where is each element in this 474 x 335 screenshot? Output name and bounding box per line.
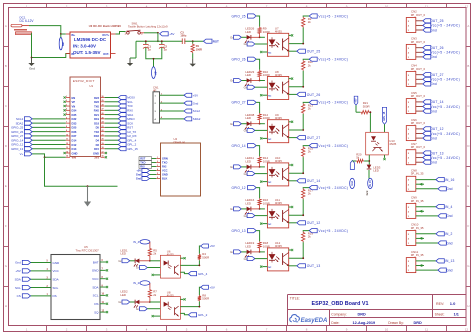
svg-text:SQ: SQ: [94, 310, 99, 314]
svg-text:GND: GND: [93, 151, 99, 155]
svg-text:F: F: [468, 224, 470, 228]
svg-text:BAT: BAT: [93, 260, 99, 264]
svg-text:RX2: RX2: [94, 134, 100, 138]
svg-text:D32: D32: [72, 117, 77, 121]
svg-text:C: C: [467, 104, 469, 108]
svg-text:OUT_26: OUT_26: [307, 93, 321, 97]
svg-text:NC: NC: [268, 224, 272, 226]
svg-text:1u: 1u: [164, 47, 167, 51]
svg-text:DRD: DRD: [358, 312, 366, 316]
svg-text:D34: D34: [72, 109, 77, 113]
svg-text:4N35: 4N35: [275, 116, 282, 120]
svg-text:GPIO_14: GPIO_14: [232, 144, 246, 148]
svg-text:H: H: [467, 304, 469, 308]
svg-text:BLK: BLK: [162, 177, 167, 181]
svg-text:Vcc(+5 - 24VDC): Vcc(+5 - 24VDC): [430, 78, 460, 82]
svg-text:4N35: 4N35: [275, 244, 282, 248]
svg-text:10: 10: [385, 4, 389, 8]
svg-text:OUT_27: OUT_27: [430, 73, 443, 77]
svg-text:Vcc(+5 - 24VDC): Vcc(+5 - 24VDC): [318, 229, 348, 233]
svg-text:Drawn By:: Drawn By:: [388, 321, 404, 325]
svg-text:30: 30: [102, 96, 104, 98]
svg-text:4N35: 4N35: [275, 30, 282, 34]
svg-text:GND: GND: [53, 261, 61, 265]
svg-text:Gnd: Gnd: [193, 101, 199, 105]
svg-text:Vcc(+5 - 24VDC): Vcc(+5 - 24VDC): [430, 156, 460, 160]
svg-text:U2 DC-DC Buck LM2596: U2 DC-DC Buck LM2596: [89, 24, 122, 28]
svg-text:D15: D15: [94, 147, 99, 151]
svg-text:Gnd: Gnd: [430, 161, 437, 165]
svg-text:SCL2: SCL2: [193, 109, 201, 113]
svg-text:VIN: VIN: [72, 156, 77, 160]
svg-text:NC: NC: [268, 267, 272, 269]
svg-text:LED: LED: [245, 244, 251, 248]
svg-text:IN_15: IN_15: [370, 180, 372, 187]
svg-text:Gnd: Gnd: [446, 214, 452, 218]
svg-text:OUT-: OUT-: [103, 52, 109, 56]
svg-text:IN_4: IN_4: [445, 205, 453, 209]
svg-text:REV:: REV:: [436, 302, 444, 306]
svg-text:OUT_13: OUT_13: [307, 264, 321, 268]
svg-text:GPIO_27: GPIO_27: [232, 101, 246, 105]
svg-text:GPL_15: GPL_15: [383, 111, 386, 121]
svg-text:Gnd: Gnd: [430, 109, 437, 113]
svg-text:12: 12: [66, 143, 68, 145]
svg-text:20: 20: [102, 139, 104, 141]
svg-text:D21: D21: [94, 113, 99, 117]
svg-text:Gnd: Gnd: [430, 82, 437, 86]
svg-text:DRD: DRD: [414, 321, 422, 325]
svg-text:OUT_25: OUT_25: [307, 50, 321, 54]
svg-text:+5V: +5V: [15, 269, 20, 273]
svg-text:SCL: SCL: [15, 286, 21, 290]
svg-text:GPL_15: GPL_15: [127, 147, 138, 151]
svg-text:GND: GND: [92, 269, 100, 273]
svg-text:Gnd: Gnd: [15, 261, 21, 265]
svg-text:D5: D5: [96, 126, 100, 130]
svg-text:16: 16: [102, 156, 104, 158]
svg-text:TXO: TXO: [162, 161, 167, 165]
svg-text:25: 25: [102, 117, 104, 119]
svg-text:Vcc(+5 - 24VDC): Vcc(+5 - 24VDC): [430, 51, 460, 55]
svg-text:RST: RST: [213, 39, 219, 43]
svg-text:D19: D19: [94, 117, 99, 121]
svg-text:IN_4: IN_4: [133, 240, 139, 244]
svg-text:D25: D25: [72, 126, 77, 130]
svg-text:6: 6: [157, 177, 158, 179]
svg-text:4N35: 4N35: [275, 73, 282, 77]
svg-text:Vcc(+5 - 24VDC): Vcc(+5 - 24VDC): [318, 101, 348, 105]
svg-text:LED: LED: [373, 169, 379, 173]
svg-text:Gnd: Gnd: [136, 173, 142, 177]
svg-text:GPIO_13: GPIO_13: [11, 147, 23, 151]
svg-text:B: B: [467, 64, 469, 68]
svg-text:3P_OUT_0: 3P_OUT_0: [411, 40, 426, 44]
svg-text:3V3: 3V3: [94, 156, 99, 160]
svg-text:D12: D12: [72, 143, 77, 147]
svg-text:D: D: [5, 144, 7, 148]
svg-text:Tactile Button Latching 12x12x: Tactile Button Latching 12x12x9: [128, 25, 168, 29]
svg-text:29: 29: [102, 100, 104, 102]
svg-text:Vcc(+5 - 24VDC): Vcc(+5 - 24VDC): [318, 144, 348, 148]
svg-text:Date:: Date:: [331, 321, 339, 325]
svg-text:3P_OUT_0: 3P_OUT_0: [411, 67, 426, 71]
svg-text:3P_IN_35: 3P_IN_35: [411, 172, 424, 176]
svg-text:Gnd: Gnd: [366, 190, 369, 195]
svg-text:2: 2: [157, 161, 158, 163]
svg-text:A: A: [467, 24, 469, 28]
svg-text:GND: GND: [162, 173, 168, 177]
svg-text:GND: GND: [72, 151, 78, 155]
svg-text:1u: 1u: [148, 47, 151, 51]
svg-text:OUT: 1.5-35V: OUT: 1.5-35V: [73, 50, 101, 55]
svg-text:A: A: [5, 24, 7, 28]
svg-text:23: 23: [102, 126, 104, 128]
svg-text:5: 5: [66, 113, 67, 115]
svg-text:+5V: +5V: [210, 285, 215, 289]
svg-text:LED: LED: [245, 73, 251, 77]
svg-text:Gnd: Gnd: [446, 187, 452, 191]
svg-text:DS: DS: [53, 294, 57, 298]
svg-text:Vcc(+5 - 24VDC): Vcc(+5 - 24VDC): [318, 14, 348, 18]
svg-text:19: 19: [102, 143, 104, 145]
svg-text:GPIO_26: GPIO_26: [232, 58, 246, 62]
svg-text:22: 22: [102, 130, 104, 132]
svg-text:3P_OUT_0: 3P_OUT_0: [411, 13, 426, 17]
svg-text:RX0: RX0: [94, 109, 100, 113]
svg-text:3P_OUT_0: 3P_OUT_0: [411, 121, 426, 125]
svg-text:EasyEDA: EasyEDA: [301, 318, 328, 324]
svg-text:13: 13: [66, 147, 68, 149]
svg-text:EN: EN: [72, 96, 76, 100]
svg-text:H: H: [5, 304, 7, 308]
svg-text:OUT_25: OUT_25: [430, 19, 443, 23]
svg-text:28: 28: [102, 104, 104, 106]
svg-text:OUT_12: OUT_12: [430, 127, 443, 131]
svg-text:2: 2: [66, 100, 67, 102]
svg-text:6: 6: [66, 117, 67, 119]
svg-text:7: 7: [66, 122, 67, 124]
svg-text:D35: D35: [72, 113, 77, 117]
svg-text:NC: NC: [268, 52, 272, 54]
svg-text:LED: LED: [245, 201, 251, 205]
svg-text:SDA: SDA: [92, 285, 98, 289]
svg-text:1.0: 1.0: [450, 301, 456, 306]
svg-text:Gnd: Gnd: [352, 181, 354, 186]
svg-text:D4: D4: [96, 139, 100, 143]
svg-text:GPIO_12: GPIO_12: [232, 186, 246, 190]
svg-text:GPL_4: GPL_4: [198, 272, 208, 276]
svg-text:GRN: GRN: [162, 157, 168, 161]
svg-text:3P_IN_35: 3P_IN_35: [411, 199, 424, 203]
svg-text:E: E: [5, 184, 7, 188]
svg-text:VCC: VCC: [53, 269, 60, 273]
svg-text:TX2: TX2: [94, 130, 99, 134]
svg-text:+5V: +5V: [210, 244, 215, 248]
svg-text:SDA2: SDA2: [193, 117, 201, 121]
svg-text:D2: D2: [96, 143, 100, 147]
svg-text:D23: D23: [94, 96, 99, 100]
svg-text:Gnd: Gnd: [430, 28, 437, 32]
svg-text:+5V: +5V: [136, 169, 141, 173]
svg-text:GPIO_13: GPIO_13: [232, 229, 246, 233]
svg-text:Vcc(+5 - 24VDC): Vcc(+5 - 24VDC): [430, 132, 460, 136]
svg-text:IN_2: IN_2: [445, 232, 453, 236]
svg-text:+5V: +5V: [153, 70, 156, 75]
svg-text:VP: VP: [72, 100, 76, 104]
svg-text:3P_IN_35: 3P_IN_35: [411, 253, 424, 257]
svg-text:C: C: [5, 104, 7, 108]
svg-text:5: 5: [157, 173, 158, 175]
svg-text:D: D: [467, 144, 469, 148]
svg-text:SCL: SCL: [93, 294, 99, 298]
svg-text:NC: NC: [268, 96, 272, 98]
svg-text:F: F: [5, 224, 7, 228]
svg-text:OUT_26: OUT_26: [430, 46, 443, 50]
svg-text:18: 18: [102, 147, 104, 149]
svg-text:3P_OUT_0: 3P_OUT_0: [411, 94, 426, 98]
svg-text:Company:: Company:: [331, 312, 347, 316]
svg-text:LED: LED: [245, 116, 251, 120]
svg-text:OUT_12: OUT_12: [307, 221, 321, 225]
svg-text:IN: 3.0-40V: IN: 3.0-40V: [73, 44, 96, 49]
svg-text:OUT_14: OUT_14: [430, 100, 443, 104]
svg-text:Vcc(+5 - 24VDC): Vcc(+5 - 24VDC): [318, 58, 348, 62]
svg-text:D14: D14: [72, 139, 77, 143]
svg-text:4N35: 4N35: [167, 252, 174, 256]
svg-text:LED: LED: [120, 293, 126, 297]
svg-text:V+: V+: [20, 152, 24, 156]
svg-text:3: 3: [66, 104, 67, 106]
svg-text:Gnd: Gnd: [446, 241, 452, 245]
svg-text:ESP32_DOIT: ESP32_DOIT: [73, 79, 95, 83]
svg-text:+5V: +5V: [169, 32, 174, 36]
svg-text:DC 6-12V: DC 6-12V: [20, 19, 35, 23]
svg-text:LED: LED: [245, 30, 251, 34]
svg-text:B: B: [5, 64, 7, 68]
svg-text:Gnd: Gnd: [29, 66, 35, 70]
svg-text:27: 27: [102, 109, 104, 111]
svg-text:4N35: 4N35: [275, 201, 282, 205]
svg-text:OUT_13: OUT_13: [430, 151, 443, 155]
svg-text:IN_13: IN_13: [445, 259, 455, 263]
svg-text:15: 15: [66, 156, 68, 158]
svg-text:Vcc(+5 - 24VDC): Vcc(+5 - 24VDC): [430, 24, 460, 28]
svg-text:11: 11: [66, 139, 68, 141]
svg-text:9: 9: [66, 130, 67, 132]
svg-text:D33: D33: [72, 121, 77, 125]
svg-text:IN_2: IN_2: [133, 281, 139, 285]
svg-text:OUT_27: OUT_27: [307, 136, 321, 140]
svg-text:1/1: 1/1: [454, 312, 459, 316]
svg-text:1: 1: [66, 96, 67, 98]
svg-text:10: 10: [66, 134, 68, 136]
svg-text:Gnd: Gnd: [136, 177, 142, 181]
svg-text:RXI: RXI: [140, 165, 145, 169]
svg-text:100R: 100R: [196, 47, 202, 51]
svg-text:TITLE:: TITLE:: [290, 297, 300, 301]
svg-text:CS: CS: [17, 294, 21, 298]
svg-text:D18: D18: [94, 121, 99, 125]
svg-text:4N35: 4N35: [389, 142, 396, 146]
svg-text:Tiny RTC DS1307: Tiny RTC DS1307: [76, 249, 100, 253]
svg-text:OpenLog: OpenLog: [174, 140, 186, 144]
svg-text:OUT+: OUT+: [102, 33, 109, 37]
svg-text:RST: RST: [140, 157, 146, 161]
svg-text:12-Aug-2019: 12-Aug-2019: [353, 321, 376, 325]
svg-text:21: 21: [102, 134, 104, 136]
svg-text:3P_OUT_0: 3P_OUT_0: [411, 145, 426, 149]
svg-text:500R: 500R: [202, 255, 209, 259]
svg-text:SDA: SDA: [15, 277, 21, 281]
svg-text:LED: LED: [245, 159, 251, 163]
svg-text:17: 17: [102, 151, 104, 153]
svg-text:Gnd: Gnd: [430, 55, 437, 59]
svg-text:11: 11: [425, 328, 428, 332]
svg-text:DS: DS: [94, 302, 98, 306]
svg-text:12: 12: [465, 328, 469, 332]
svg-text:LED: LED: [120, 252, 126, 256]
svg-text:10: 10: [385, 328, 389, 332]
svg-text:3P_IN_35: 3P_IN_35: [411, 226, 424, 230]
svg-text:12: 12: [465, 4, 469, 8]
svg-text:ESP32_OBD Board V1: ESP32_OBD Board V1: [312, 301, 369, 307]
svg-text:4N35: 4N35: [167, 294, 174, 298]
svg-text:D13: D13: [72, 147, 77, 151]
svg-text:500R: 500R: [363, 104, 370, 108]
svg-text:Sheet:: Sheet:: [435, 312, 445, 316]
svg-text:IN-: IN-: [71, 52, 75, 56]
svg-text:D26: D26: [72, 130, 77, 134]
svg-text:RXI: RXI: [162, 165, 167, 169]
svg-text:+5V: +5V: [193, 93, 198, 97]
svg-text:LM2596 DC-DC: LM2596 DC-DC: [74, 37, 107, 42]
svg-text:NC: NC: [268, 139, 272, 141]
svg-text:Gnd: Gnd: [446, 268, 452, 272]
svg-text:VN: VN: [72, 104, 76, 108]
svg-text:TXO: TXO: [140, 161, 145, 165]
svg-text:OUT_14: OUT_14: [307, 179, 321, 183]
svg-text:GPIO_25: GPIO_25: [232, 14, 246, 18]
svg-text:11: 11: [425, 4, 428, 8]
svg-text:VIN: VIN: [61, 42, 65, 46]
svg-text:IN+: IN+: [71, 33, 76, 37]
svg-text:TX0: TX0: [94, 104, 99, 108]
svg-text:Gnd: Gnd: [430, 136, 437, 140]
svg-text:SCL: SCL: [53, 286, 59, 290]
svg-text:D27: D27: [72, 134, 77, 138]
svg-text:NC: NC: [268, 182, 272, 184]
svg-text:VCC: VCC: [92, 277, 99, 281]
svg-text:1: 1: [157, 157, 158, 159]
svg-text:E: E: [467, 184, 469, 188]
svg-text:Vcc(+5 - 24VDC): Vcc(+5 - 24VDC): [318, 186, 348, 190]
svg-text:VCC: VCC: [162, 169, 168, 173]
svg-text:100u: 100u: [180, 34, 186, 38]
svg-text:8: 8: [66, 126, 67, 128]
svg-text:SDA: SDA: [53, 278, 59, 282]
svg-text:Vcc(+5 - 24VDC): Vcc(+5 - 24VDC): [430, 105, 460, 109]
svg-text:4N35: 4N35: [275, 159, 282, 163]
svg-text:3: 3: [157, 165, 158, 167]
svg-text:26: 26: [102, 113, 104, 115]
svg-text:500R: 500R: [202, 297, 209, 301]
svg-text:+5V: +5V: [355, 98, 357, 103]
svg-text:GPL_2: GPL_2: [198, 313, 208, 317]
svg-text:IN_16: IN_16: [445, 178, 455, 182]
svg-text:D22: D22: [94, 100, 99, 104]
svg-text:U1: U1: [89, 84, 93, 88]
